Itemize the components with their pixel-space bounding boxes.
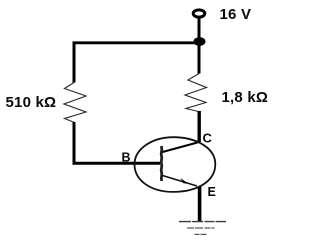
svg-text:510 kΩ: 510 kΩ <box>6 94 57 111</box>
svg-text:16 V: 16 V <box>220 6 252 23</box>
svg-text:C: C <box>203 131 213 146</box>
svg-text:E: E <box>208 185 216 199</box>
svg-text:B: B <box>122 151 131 165</box>
svg-text:1,8 kΩ: 1,8 kΩ <box>222 89 269 106</box>
